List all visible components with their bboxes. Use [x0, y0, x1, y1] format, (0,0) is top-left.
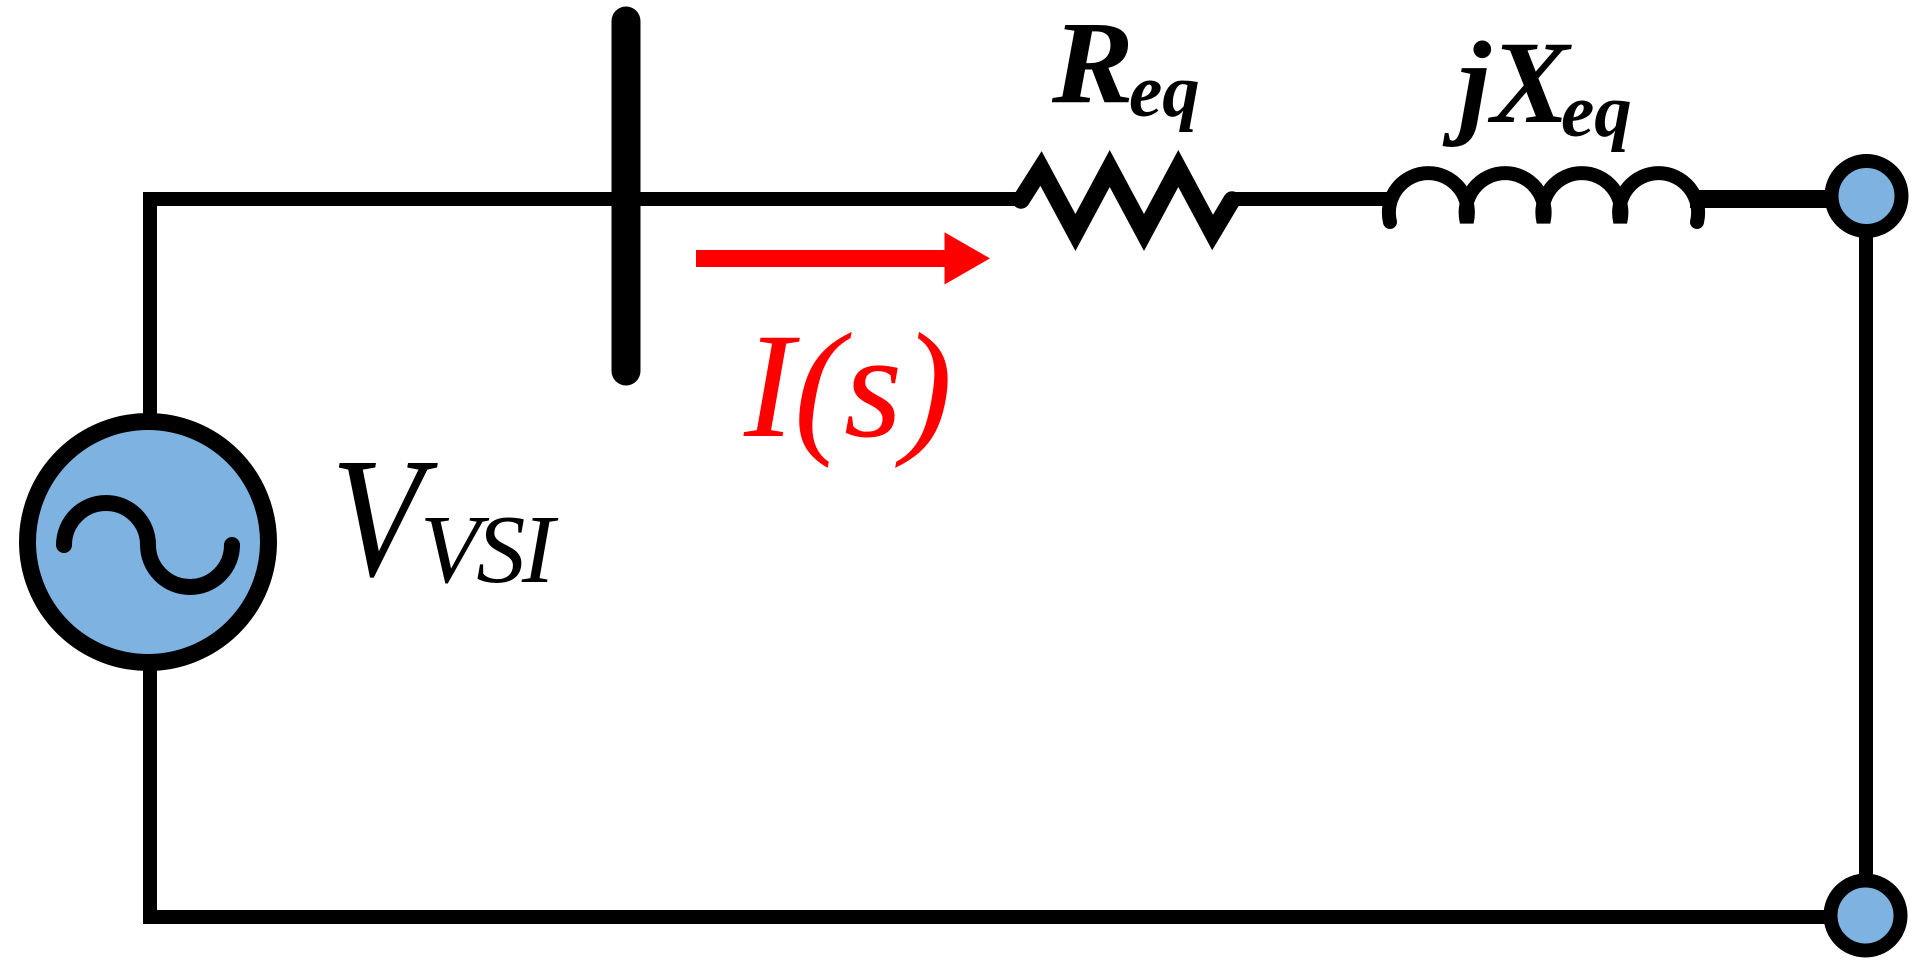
node top-right [1832, 161, 1902, 231]
bus bar [612, 21, 641, 371]
current arrow I(s) head [945, 232, 991, 284]
wire: bottom horizontal [143, 910, 1866, 924]
wire: right vertical [1859, 196, 1873, 916]
wire: left vertical [143, 192, 157, 924]
svg-text:eq: eq [1129, 50, 1200, 133]
svg-text:VSI: VSI [420, 496, 559, 604]
AC source VVSI circle [28, 422, 269, 663]
AC source sine wave [64, 503, 232, 587]
node bottom-right [1831, 881, 1901, 951]
wire: inductor to top-right node [1690, 190, 1856, 208]
svg-text:jX: jX [1442, 17, 1573, 148]
svg-text:eq: eq [1561, 70, 1632, 153]
resistor Req zigzag [1021, 169, 1232, 233]
wire: resistor to inductor [1229, 192, 1396, 206]
wire: top horizontal (source to resistor) [143, 192, 1024, 206]
inductor jXeq coils [1389, 173, 1698, 222]
svg-text:I(s): I(s) [743, 303, 952, 469]
svg-text:R: R [1051, 0, 1134, 128]
current arrow I(s) shaft [696, 250, 948, 267]
